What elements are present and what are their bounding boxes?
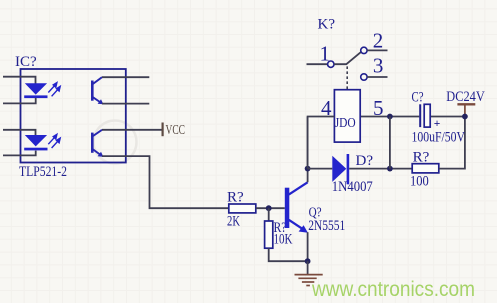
power port DC24V bar — [457, 104, 475, 116]
svg-text:+: + — [434, 118, 441, 130]
wire ch2 anode pin — [3, 130, 36, 136]
svg-text:DC24V: DC24V — [446, 89, 485, 105]
LED D1a (channel 1) — [24, 83, 47, 98]
wire pin5 node down to diode rail — [389, 117, 391, 169]
svg-text:K?: K? — [318, 16, 336, 32]
svg-text:3: 3 — [373, 54, 384, 78]
switch contact 3 — [361, 74, 367, 80]
LED ch2 emission arrows — [48, 134, 60, 148]
relay coil K1 JDO box — [334, 90, 360, 142]
svg-text:10K: 10K — [274, 232, 293, 248]
svg-text:4: 4 — [321, 96, 332, 120]
switch arm — [334, 52, 361, 64]
wire switch pin1 — [307, 63, 328, 65]
svg-text:TLP521-2: TLP521-2 — [19, 164, 67, 180]
svg-text:C?: C? — [412, 90, 424, 106]
resistor R1 (100) — [412, 164, 439, 173]
junction DC24V node — [462, 114, 468, 120]
wire ch1 anode pin — [3, 77, 36, 85]
diode D1 1N4007 — [332, 154, 349, 184]
transistor Q1 2N5551 — [285, 182, 308, 233]
junction pin5 node — [387, 114, 393, 120]
wire switch pin3 — [367, 76, 387, 78]
mechanical link dashed — [346, 66, 348, 89]
wire emitter down to ground node — [307, 232, 309, 261]
power port VCC bar — [162, 123, 164, 137]
wire ch2 emitter to R2K — [102, 156, 229, 208]
svg-text:R?: R? — [413, 150, 430, 166]
wire ch1 emitter stub — [102, 103, 149, 105]
wire ch2 collector to VCC — [102, 129, 162, 131]
junction diode rail node — [387, 166, 393, 172]
wire R10K to ground rail — [269, 248, 308, 261]
resistor R2 (2K) — [229, 204, 256, 213]
wire switch pin2 — [367, 49, 387, 51]
wire pin5 rail — [360, 116, 419, 118]
svg-text:www.cntronics.com: www.cntronics.com — [311, 277, 475, 301]
svg-text:JDO: JDO — [335, 115, 356, 130]
svg-text:R?: R? — [227, 189, 244, 205]
wire node to diode anode — [308, 168, 333, 170]
svg-text:100: 100 — [410, 173, 429, 189]
ground symbol — [295, 261, 323, 285]
svg-text:VCC: VCC — [166, 123, 186, 138]
svg-text:IC?: IC? — [15, 54, 37, 70]
svg-text:2N5551: 2N5551 — [308, 218, 345, 234]
svg-text:D?: D? — [356, 153, 374, 169]
switch contact 1 — [328, 61, 334, 67]
wire ch1 cathode pin — [3, 98, 36, 104]
svg-text:2: 2 — [373, 28, 384, 52]
capacitor C1 100uF/50V — [420, 104, 440, 130]
switch contact 2 — [361, 47, 367, 53]
LED D1b (channel 2) — [24, 135, 47, 150]
LED ch1 emission arrows — [48, 83, 60, 97]
junction emitter/ground node — [305, 258, 311, 264]
svg-text:2K: 2K — [227, 214, 240, 230]
phototransistor ch2 — [92, 130, 103, 157]
svg-text:100uF/50V: 100uF/50V — [412, 130, 466, 146]
junction node base — [266, 205, 272, 211]
junction collector/diode node — [305, 166, 311, 172]
wire diode cathode to R100 — [349, 168, 412, 170]
svg-text:5: 5 — [373, 96, 384, 120]
wire R100 to DC24V rail — [439, 116, 465, 168]
svg-text:1N4007: 1N4007 — [332, 179, 373, 195]
wire R2K to base — [256, 207, 285, 209]
wire base node down to R10K — [268, 208, 270, 221]
svg-text:1: 1 — [320, 42, 331, 66]
faint logo watermark ring — [94, 121, 137, 164]
optocoupler U1 box — [21, 69, 126, 163]
wire ch1 collector stub — [102, 76, 149, 78]
phototransistor ch1 — [92, 77, 103, 104]
wire ch2 cathode pin — [3, 151, 36, 156]
resistor R3 (10K) — [265, 221, 273, 248]
wire collector up to node — [307, 117, 309, 183]
wire pin4 — [308, 117, 335, 169]
